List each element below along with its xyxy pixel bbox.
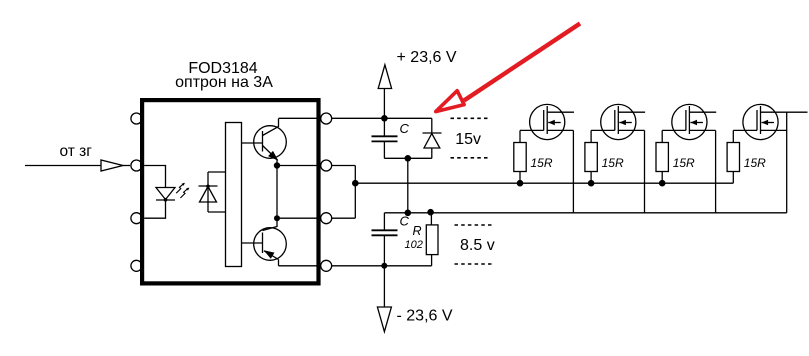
svg-text:от зг: от зг	[60, 143, 93, 160]
wire pin1 to +rail node	[332, 117, 432, 119]
svg-text:8.5 v: 8.5 v	[460, 237, 495, 254]
svg-text:C: C	[400, 214, 410, 229]
capacitor C1 top	[372, 118, 398, 158]
wire pin2 to bracket	[332, 165, 356, 167]
node bracket bus junction	[352, 180, 359, 187]
svg-text:102: 102	[405, 239, 423, 251]
transistor M2 MOSFET	[591, 104, 645, 212]
node collector junction Q2	[274, 215, 280, 221]
node top rail junction	[381, 115, 388, 122]
power -23.6V symbol	[377, 266, 391, 332]
wire node to pin3	[277, 217, 317, 219]
wire pin3 to bracket	[332, 217, 356, 219]
light arrow 1	[176, 183, 185, 193]
node bottom rail junction	[381, 263, 387, 269]
pin 4 right	[321, 260, 332, 271]
pin 2 right	[321, 160, 332, 171]
pin 1 left	[131, 113, 142, 124]
optocoupler U1 FOD3184 body	[142, 100, 318, 283]
wire arrow to pin2	[123, 165, 130, 167]
wire input line	[25, 165, 101, 167]
dashed line 15v bottom	[451, 157, 489, 159]
wire photodiode loop top	[208, 171, 226, 173]
pin 2 left	[131, 160, 142, 171]
node emitter junction	[274, 162, 280, 168]
wire bracket vertical	[354, 166, 356, 219]
svg-text:+ 23,6 V: + 23,6 V	[397, 49, 457, 66]
pin 1 right	[321, 113, 332, 124]
resistor R4 15R	[656, 143, 668, 184]
node upper loop bottom junction	[405, 155, 412, 162]
LED D1	[156, 188, 175, 202]
wire Q1 collector to pin1	[279, 117, 318, 119]
light arrow 2	[180, 188, 189, 198]
svg-text:15v: 15v	[455, 131, 481, 148]
node gate bus junction M3	[659, 180, 666, 187]
zener diode VD1 15v	[423, 118, 442, 158]
svg-text:15R: 15R	[673, 156, 695, 170]
svg-text:15R: 15R	[602, 156, 624, 170]
transistor Q1 NPN top	[242, 119, 287, 166]
node gate bus junction M1	[517, 180, 524, 187]
wire output rail vertical	[276, 166, 278, 219]
driver block U1 internal	[226, 123, 242, 267]
transistor M4 MOSFET	[733, 104, 807, 212]
wire Q2 emitter to pin4	[279, 265, 318, 267]
wire emitter to pin2	[277, 165, 317, 167]
svg-text:оптрон на 3А: оптрон на 3А	[175, 74, 273, 91]
transistor Q2 PNP bottom	[242, 218, 287, 266]
dashed line 8.5v top	[455, 224, 495, 226]
transistor M3 MOSFET	[662, 104, 716, 212]
resistor R3 15R	[585, 143, 597, 184]
wire pin4 line	[332, 265, 432, 267]
node gate bus junction M2	[588, 180, 595, 187]
node source bus left junction	[405, 210, 412, 217]
pin 3 right	[321, 213, 332, 224]
node R top junction	[427, 209, 434, 216]
svg-text:- 23,6 V: - 23,6 V	[397, 308, 453, 325]
input arrow	[101, 160, 123, 171]
resistor R1 102	[426, 213, 438, 266]
svg-text:C: C	[400, 121, 410, 136]
wire LED cathode loop	[144, 200, 165, 218]
wire photodiode loop bottom	[208, 211, 226, 213]
transistor M1 MOSFET	[520, 104, 574, 212]
pin 3 left	[131, 213, 142, 224]
red annotation arrow	[436, 24, 580, 112]
wire LED anode loop	[144, 166, 165, 188]
capacitor C2 bottom	[372, 213, 398, 266]
svg-text:15R: 15R	[744, 156, 766, 170]
dashed line 15v top	[451, 117, 489, 119]
svg-text:15R: 15R	[531, 156, 553, 170]
svg-text:R: R	[413, 224, 422, 238]
wire gate bus	[355, 182, 733, 184]
dashed line 8.5v bottom	[455, 263, 495, 265]
wire upper loop bottom	[384, 157, 432, 159]
photodiode D2	[199, 172, 218, 212]
resistor R5 15R	[727, 143, 739, 184]
pin 4 left	[131, 260, 142, 271]
wire midpoint vertical	[407, 158, 409, 213]
resistor R2 15R	[514, 143, 526, 184]
power +23.6V symbol	[378, 65, 391, 119]
wire source bus	[384, 212, 786, 214]
